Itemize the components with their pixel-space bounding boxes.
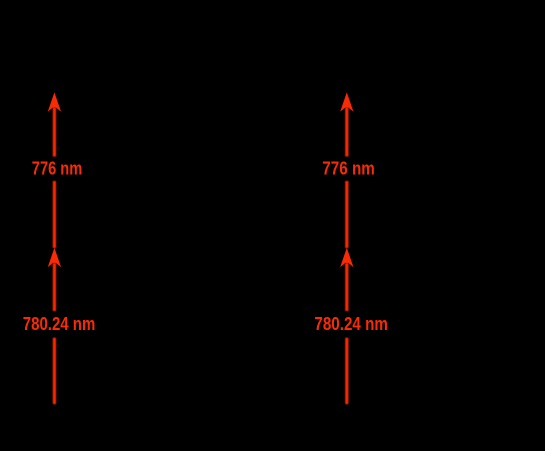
svg-text:776 nm: 776 nm: [322, 159, 375, 179]
arrow L776 head: [49, 94, 60, 110]
svg-text:780.24 nm: 780.24 nm: [314, 314, 388, 334]
arrow R780 shaft upper segment: [345, 263, 348, 311]
label L780 value 780.24 nm: [23, 314, 96, 334]
arrow R780 shaft lower segment: [345, 338, 348, 405]
arrow L776 shaft lower segment: [53, 181, 56, 248]
arrow L776 shaft upper segment: [53, 108, 56, 157]
arrow R780 head: [341, 249, 352, 265]
label L776 value 776 nm: [32, 159, 83, 179]
arrow L780 shaft lower segment: [53, 338, 56, 405]
arrow R776 shaft upper segment: [345, 108, 348, 157]
svg-text:776 nm: 776 nm: [32, 159, 83, 179]
arrow L780 head: [49, 249, 60, 265]
arrow R776 head: [341, 94, 352, 110]
arrow L780 shaft upper segment: [53, 263, 56, 311]
label R780 value 780.24 nm: [314, 314, 388, 334]
label R776 value 776 nm: [322, 159, 375, 179]
arrow R776 shaft lower segment: [345, 181, 348, 248]
svg-text:780.24 nm: 780.24 nm: [23, 314, 96, 334]
